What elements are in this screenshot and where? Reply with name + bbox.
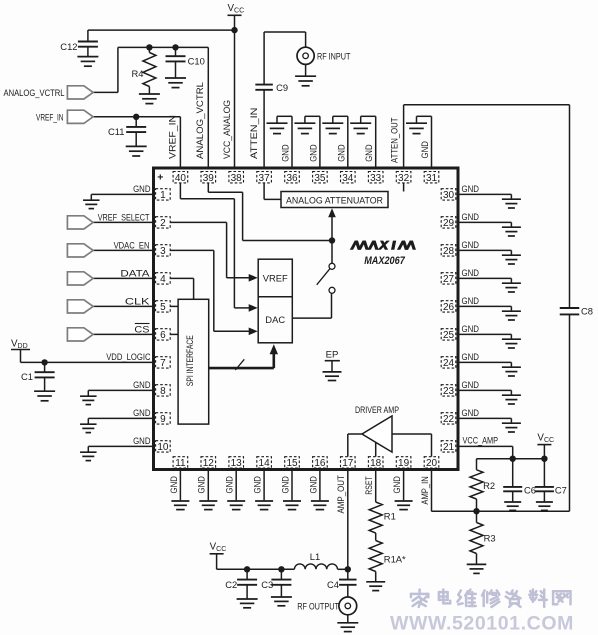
svg-text:GND: GND	[133, 407, 151, 418]
svg-text:19: 19	[398, 458, 410, 469]
svg-text:VREF_IN: VREF_IN	[36, 111, 64, 122]
svg-text:C10: C10	[188, 55, 205, 66]
svg-text:GND: GND	[462, 295, 480, 306]
svg-text:GND: GND	[419, 141, 430, 159]
svg-text:7: 7	[160, 358, 166, 369]
svg-text:VREF: VREF	[263, 272, 288, 283]
svg-text:C2: C2	[225, 579, 237, 590]
svg-text:35: 35	[314, 173, 326, 184]
svg-text:40: 40	[175, 173, 187, 184]
svg-text:22: 22	[443, 414, 455, 425]
svg-text:9: 9	[160, 414, 166, 425]
svg-text:C12: C12	[60, 41, 77, 52]
svg-text:C6: C6	[524, 485, 536, 496]
svg-text:C9: C9	[276, 82, 288, 93]
svg-text:DATA: DATA	[120, 268, 150, 279]
svg-text:GND: GND	[462, 183, 480, 194]
svg-text:GND: GND	[133, 379, 151, 390]
svg-text:ANALOG_VCTRL: ANALOG_VCTRL	[194, 82, 205, 159]
svg-text:CS: CS	[134, 324, 149, 335]
svg-text:28: 28	[443, 246, 455, 257]
svg-text:27: 27	[443, 274, 455, 285]
svg-text:39: 39	[203, 173, 215, 184]
svg-text:GND: GND	[462, 239, 480, 250]
svg-text:WWW.520101.COM: WWW.520101.COM	[390, 613, 574, 635]
svg-text:21: 21	[443, 442, 455, 453]
svg-text:16: 16	[314, 458, 326, 469]
svg-text:20: 20	[426, 458, 438, 469]
svg-text:R2: R2	[483, 480, 495, 491]
svg-text:12: 12	[203, 458, 215, 469]
svg-text:C3: C3	[261, 579, 273, 590]
svg-text:R1: R1	[384, 510, 396, 521]
svg-text:GND: GND	[280, 144, 291, 162]
svg-text:15: 15	[286, 458, 298, 469]
svg-text:RF OUTPUT: RF OUTPUT	[297, 600, 339, 611]
svg-text:GND: GND	[462, 407, 480, 418]
svg-text:GND: GND	[196, 476, 207, 494]
svg-text:31: 31	[426, 173, 438, 184]
svg-text:25: 25	[443, 330, 455, 341]
svg-text:C1: C1	[21, 371, 33, 382]
svg-text:C8: C8	[581, 306, 593, 317]
svg-text:CLK: CLK	[125, 296, 151, 307]
svg-text:13: 13	[231, 458, 243, 469]
svg-text:1: 1	[160, 190, 166, 201]
svg-text:34: 34	[342, 173, 354, 184]
svg-text:R1A*: R1A*	[384, 553, 406, 564]
svg-text:C7: C7	[555, 485, 567, 496]
svg-text:17: 17	[342, 458, 354, 469]
svg-text:GND: GND	[307, 476, 318, 494]
svg-text:11: 11	[175, 458, 186, 469]
svg-text:GND: GND	[391, 476, 402, 494]
svg-text:32: 32	[398, 173, 410, 184]
svg-text:4: 4	[160, 274, 166, 285]
svg-text:VDAC_EN: VDAC_EN	[114, 240, 150, 251]
svg-text:R4: R4	[132, 68, 144, 79]
svg-text:EP: EP	[326, 350, 339, 361]
svg-text:ANALOG ATTENUATOR: ANALOG ATTENUATOR	[286, 195, 383, 205]
svg-text:29: 29	[443, 218, 455, 229]
svg-text:R3: R3	[484, 532, 496, 543]
svg-text:GND: GND	[307, 144, 318, 162]
svg-text:33: 33	[370, 173, 382, 184]
svg-text:GND: GND	[335, 144, 346, 162]
svg-text:SPI INTERFACE: SPI INTERFACE	[184, 335, 195, 386]
svg-text:ANALOG_VCTRL: ANALOG_VCTRL	[4, 87, 65, 98]
svg-text:C4: C4	[327, 579, 339, 590]
svg-text:L1: L1	[310, 551, 320, 562]
svg-text:14: 14	[259, 458, 271, 469]
svg-text:GND: GND	[168, 476, 179, 494]
svg-text:30: 30	[443, 190, 455, 201]
svg-text:ATTEN_IN: ATTEN_IN	[248, 108, 259, 159]
svg-text:3: 3	[160, 246, 166, 257]
svg-text:36: 36	[286, 173, 298, 184]
svg-text:C11: C11	[108, 126, 125, 137]
svg-text:MAX2067: MAX2067	[364, 255, 406, 267]
svg-text:GND: GND	[133, 435, 151, 446]
svg-text:ATTEN_OUT: ATTEN_OUT	[389, 117, 400, 163]
svg-text:VREF_SELECT: VREF_SELECT	[98, 212, 150, 223]
svg-text:RF INPUT: RF INPUT	[317, 50, 351, 61]
svg-text:GND: GND	[462, 351, 480, 362]
svg-text:AMP_IN: AMP_IN	[419, 476, 430, 504]
svg-text:VREF_IN: VREF_IN	[166, 115, 177, 159]
svg-text:VCC_AMP: VCC_AMP	[463, 434, 499, 445]
svg-text:GND: GND	[224, 476, 235, 494]
svg-text:26: 26	[443, 302, 455, 313]
svg-text:GND: GND	[133, 183, 151, 194]
svg-text:GND: GND	[462, 379, 480, 390]
svg-text:AMP_OUT: AMP_OUT	[335, 475, 346, 514]
svg-text:VDD_LOGIC: VDD_LOGIC	[106, 351, 150, 362]
svg-text:GND: GND	[462, 323, 480, 334]
svg-text:+: +	[157, 172, 163, 184]
svg-text:GND: GND	[363, 144, 374, 162]
svg-text:6: 6	[160, 330, 166, 341]
svg-text:5: 5	[160, 302, 166, 313]
svg-text:DAC: DAC	[265, 314, 285, 325]
svg-text:GND: GND	[279, 476, 290, 494]
svg-text:DRIVER AMP: DRIVER AMP	[355, 405, 399, 415]
svg-text:24: 24	[443, 358, 455, 369]
svg-text:2: 2	[160, 218, 166, 229]
svg-text:GND: GND	[462, 211, 480, 222]
svg-text:38: 38	[231, 173, 243, 184]
svg-text:RSET: RSET	[363, 476, 374, 495]
svg-text:37: 37	[259, 173, 271, 184]
svg-text:18: 18	[370, 458, 382, 469]
svg-text:8: 8	[160, 386, 166, 397]
svg-text:10: 10	[157, 442, 169, 453]
svg-text:23: 23	[443, 386, 455, 397]
svg-text:GND: GND	[252, 476, 263, 494]
svg-text:GND: GND	[462, 267, 480, 278]
svg-text:VCC_ANALOG: VCC_ANALOG	[221, 100, 232, 159]
